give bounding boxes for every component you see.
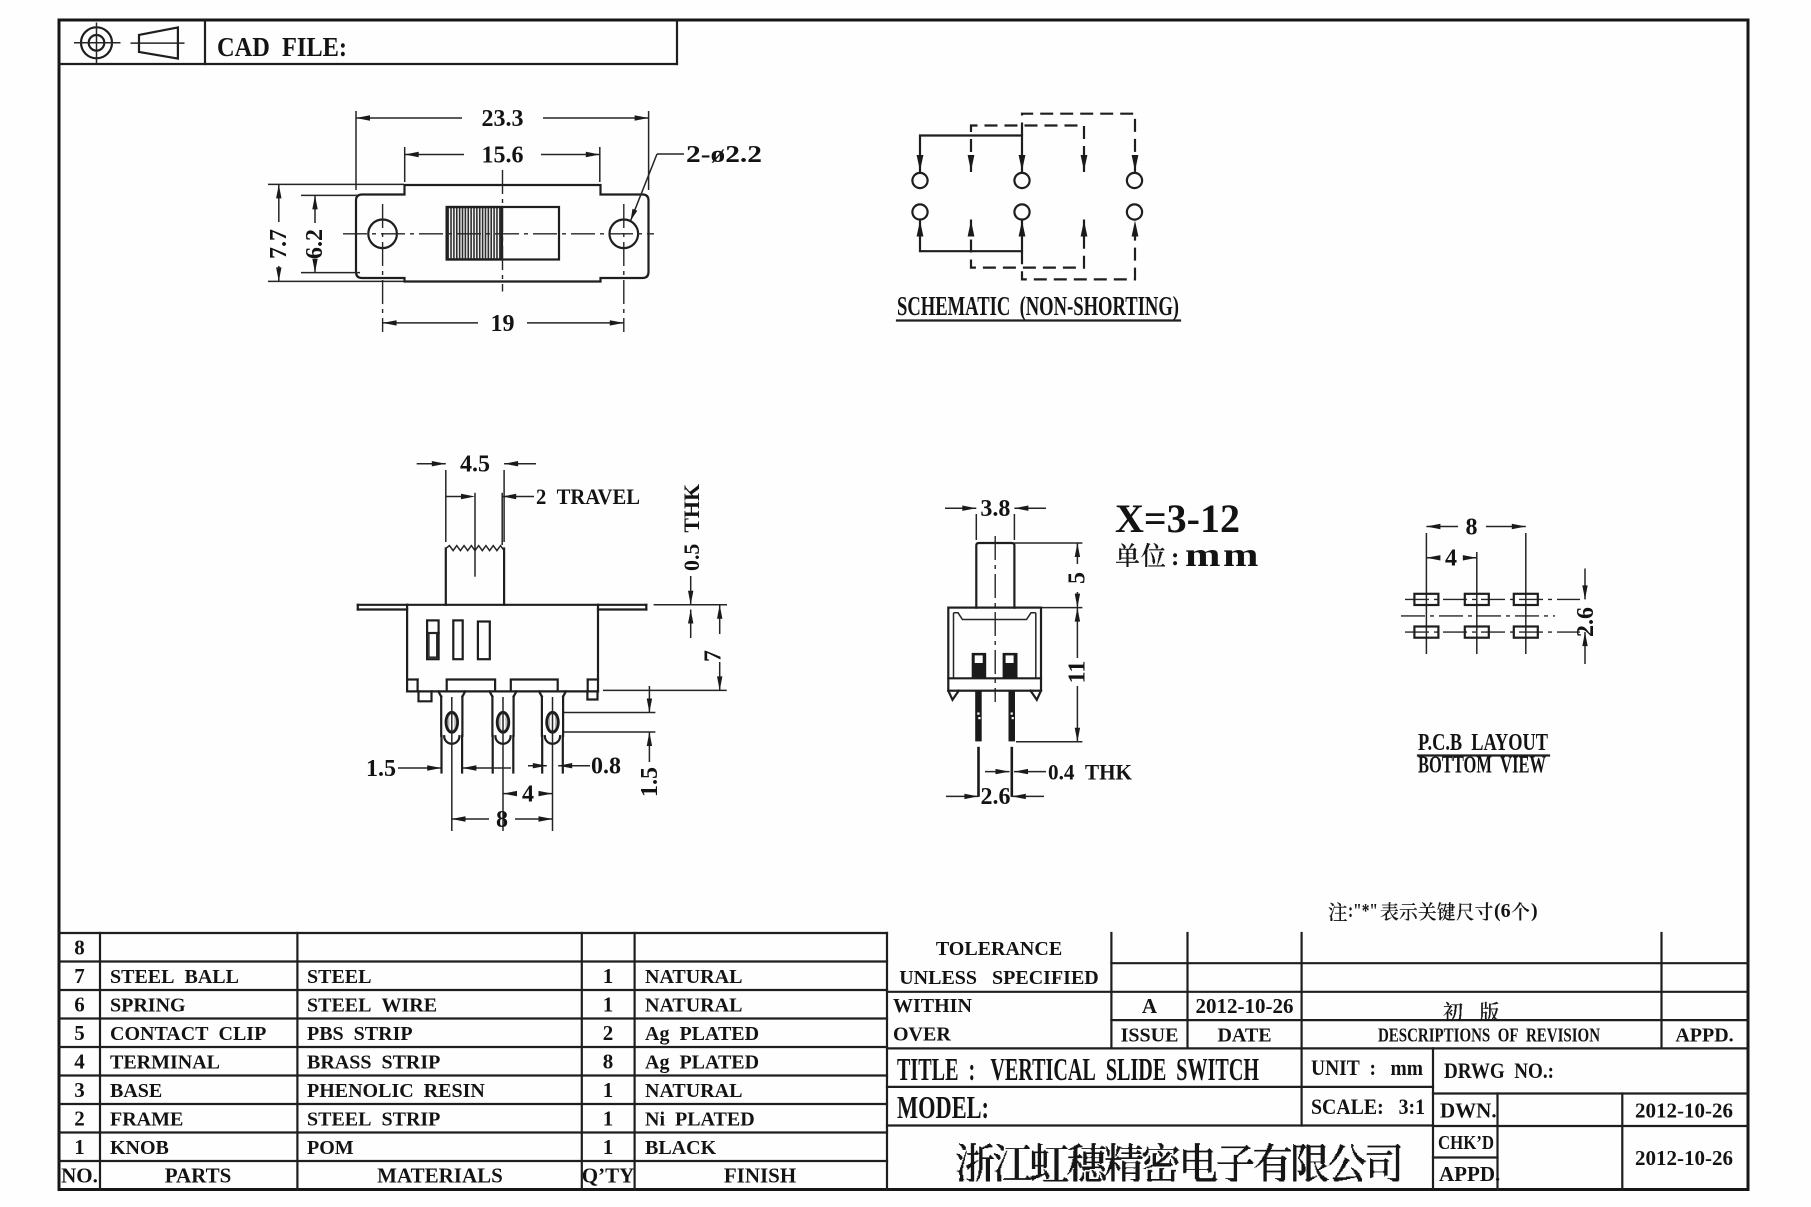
svg-text:SCALE: 3:1: SCALE: 3:1 — [1311, 1094, 1425, 1119]
revision header row — [1121, 1025, 1734, 1047]
schematic: moving contact dashed frame outer position — [1022, 114, 1138, 280]
front view: window 2 — [453, 620, 462, 659]
svg-text:OVER: OVER — [893, 1024, 951, 1046]
dimension 0.8 pin tip width — [528, 754, 621, 780]
svg-text:2: 2 — [74, 1107, 85, 1131]
dimension 0.5 THK flange thickness — [654, 484, 727, 638]
svg-text:PARTS: PARTS — [165, 1164, 232, 1188]
top view: slider recess opening — [447, 207, 559, 260]
svg-text:(6: (6 — [1494, 900, 1511, 922]
svg-text:2 TRAVEL: 2 TRAVEL — [536, 484, 640, 509]
top view: vertical centerline — [502, 170, 504, 292]
svg-text:3: 3 — [74, 1078, 85, 1102]
pcb layout: solder pad 6 — [1514, 627, 1538, 638]
svg-text:CAD FILE:: CAD FILE: — [217, 32, 347, 62]
side view: knob stem — [976, 543, 1014, 608]
revision row: A 2012-10-26 first issue — [1142, 994, 1499, 1021]
svg-text:STEEL BALL: STEEL BALL — [110, 966, 239, 988]
svg-text:PBS STRIP: PBS STRIP — [307, 1023, 413, 1045]
svg-text:BRASS STRIP: BRASS STRIP — [307, 1052, 440, 1074]
svg-text:11: 11 — [1065, 661, 1091, 684]
parts table row 2 — [74, 1107, 754, 1131]
first-angle projection symbol: truncated cone (frustum) — [131, 27, 185, 58]
svg-text:DRWG NO.:: DRWG NO.: — [1444, 1058, 1554, 1083]
dimension 23.3 overall width — [356, 106, 649, 190]
dimension 7.7 frame height — [266, 184, 404, 281]
svg-text:0.4 THK: 0.4 THK — [1048, 760, 1132, 785]
svg-text:1: 1 — [603, 1078, 614, 1102]
svg-text:1: 1 — [603, 1107, 614, 1131]
svg-text:2.6: 2.6 — [1573, 607, 1599, 637]
svg-text:8: 8 — [74, 936, 85, 960]
svg-text:8: 8 — [1466, 515, 1478, 541]
svg-text::"*": :"*" — [1348, 900, 1378, 922]
schematic: terminal contact circle 1 — [912, 173, 927, 188]
svg-text:TITLE : VERTICAL SLIDE SW: TITLE : VERTICAL SLIDE SWITCH — [897, 1051, 1259, 1087]
parts table row 1 — [74, 1135, 716, 1159]
front view: window 3 — [478, 622, 490, 660]
front view: switch body outline — [407, 605, 598, 692]
svg-text:POM: POM — [307, 1137, 354, 1159]
dimension 2 TRAVEL — [446, 484, 640, 545]
pcb layout: pad column line 2 — [1476, 552, 1478, 654]
schematic title: SCHEMATIC (NON-SHORTING) — [897, 291, 1180, 321]
parts table row 3 — [74, 1078, 742, 1102]
pcb layout: pad column line 3 — [1525, 533, 1527, 654]
front view: metal frame flange left — [358, 605, 407, 610]
dimension 2.6 pcb row spacing — [1573, 569, 1599, 665]
svg-text:A: A — [1142, 994, 1158, 1018]
svg-text:0.8: 0.8 — [591, 754, 621, 780]
pcb layout: row centerline lower — [1405, 631, 1580, 633]
svg-text:STEEL WIRE: STEEL WIRE — [307, 995, 437, 1017]
svg-text:BASE: BASE — [110, 1080, 162, 1102]
svg-text:5: 5 — [74, 1021, 85, 1045]
dimension 1.5 pin width left — [366, 756, 511, 782]
schematic: moving contact dashed frame middle position — [968, 126, 1088, 268]
side view: left foot — [948, 691, 959, 700]
dimension 8 pcb outer pitch — [1426, 515, 1525, 541]
parts table row 8 — [74, 936, 85, 960]
svg-text:X=3-12: X=3-12 — [1115, 496, 1240, 541]
dimension 4 pin pitch — [503, 782, 553, 808]
svg-text:UNLESS SPECIFIED: UNLESS SPECIFIED — [899, 967, 1099, 989]
dimension 7 body height — [603, 605, 727, 691]
svg-text:7: 7 — [74, 964, 85, 988]
top view: right mounting hole — [610, 220, 639, 249]
svg-text:FRAME: FRAME — [110, 1109, 183, 1131]
front view: terminal pin 3 — [539, 691, 566, 831]
side view: terminal pin right (black) — [1009, 691, 1016, 797]
model row — [897, 1089, 989, 1125]
dimension 19 hole spacing — [383, 311, 624, 337]
svg-text:6.2: 6.2 — [302, 229, 328, 259]
svg-text:1: 1 — [603, 1135, 614, 1159]
pcb layout: middle centerline — [1401, 615, 1555, 617]
svg-text:4: 4 — [522, 782, 534, 808]
title block grid — [887, 933, 1748, 1190]
svg-text:DWN.: DWN. — [1440, 1099, 1497, 1123]
checked row — [1438, 1132, 1733, 1170]
front view: terminal pin 2 — [490, 691, 517, 831]
svg-text:NATURAL: NATURAL — [645, 995, 742, 1017]
svg-text:2.6: 2.6 — [981, 784, 1011, 810]
svg-text:8: 8 — [496, 807, 508, 833]
title bar: CAD FILE header box — [59, 20, 677, 64]
pcb layout: row centerline upper — [1405, 598, 1580, 600]
svg-text:Ni PLATED: Ni PLATED — [645, 1109, 755, 1131]
dimension 1.5 pin slot right side — [564, 686, 664, 797]
svg-text:DESCRIPTIONS OF REVISION: DESCRIPTIONS OF REVISION — [1378, 1025, 1600, 1047]
front view: base bottom corner notch left — [407, 680, 418, 692]
svg-text:23.3: 23.3 — [482, 106, 524, 132]
parts table row 5 — [74, 1021, 759, 1045]
title row: VERTICAL SLIDE SWITCH — [897, 1051, 1259, 1087]
svg-text:1.5: 1.5 — [366, 756, 396, 782]
label: CAD FILE: — [217, 32, 347, 62]
svg-text:STEEL STRIP: STEEL STRIP — [307, 1109, 440, 1131]
dimension 5 knob height — [1014, 543, 1090, 608]
side view: contact clip left (black) — [972, 653, 987, 678]
schematic: pole 1 common frame (solid position) — [917, 136, 1026, 252]
front view: window 1 with contact detail — [427, 620, 439, 659]
svg-text:): ) — [1531, 900, 1538, 922]
svg-text:0.5 THK: 0.5 THK — [679, 484, 704, 571]
front view: metal frame flange right — [598, 605, 646, 610]
svg-text:8: 8 — [603, 1050, 614, 1074]
top view: horizontal centerline — [343, 233, 654, 235]
svg-text:NATURAL: NATURAL — [645, 1080, 742, 1102]
svg-text:7: 7 — [701, 650, 727, 662]
svg-text:TERMINAL: TERMINAL — [110, 1052, 220, 1074]
svg-text:19: 19 — [491, 311, 515, 337]
svg-text:BLACK: BLACK — [645, 1137, 717, 1159]
svg-text:Ag PLATED: Ag PLATED — [645, 1052, 759, 1074]
dimension 4 pcb pitch — [1426, 546, 1476, 572]
pcb layout: solder pad 1 — [1414, 594, 1438, 605]
svg-text:4.5: 4.5 — [460, 452, 490, 478]
svg-text:SCHEMATIC (NON-SHORTING): SCHEMATIC (NON-SHORTING) — [897, 291, 1179, 321]
pcb layout: solder pad 4 — [1414, 627, 1438, 638]
svg-text:CHK’D: CHK’D — [1438, 1132, 1494, 1154]
svg-text:1: 1 — [603, 993, 614, 1017]
svg-text:2012-10-26: 2012-10-26 — [1196, 994, 1294, 1018]
side view: terminal pin left (black) — [975, 691, 982, 797]
pcb layout: pad column line 1 — [1425, 533, 1427, 654]
svg-text:mm: mm — [1185, 537, 1261, 574]
svg-text:NATURAL: NATURAL — [645, 966, 742, 988]
unit cell — [1311, 1055, 1423, 1080]
side view: centerline — [994, 536, 996, 702]
svg-text:1.5: 1.5 — [637, 767, 663, 797]
svg-text:BOTTOM VIEW: BOTTOM VIEW — [1418, 753, 1546, 779]
parts table grid — [59, 933, 887, 1190]
svg-text:KNOB: KNOB — [110, 1137, 169, 1159]
tolerance block text — [893, 938, 1099, 1046]
side view: contact clip right (black) — [1003, 653, 1018, 678]
svg-text:STEEL: STEEL — [307, 966, 371, 988]
approved row — [1439, 1162, 1500, 1186]
svg-text:APPD.: APPD. — [1439, 1162, 1500, 1186]
svg-text:7.7: 7.7 — [266, 229, 292, 259]
front view: base boss between pins 2-3 — [511, 680, 558, 692]
pcb layout: solder pad 3 — [1514, 594, 1538, 605]
pcb layout: solder pad 2 — [1465, 594, 1489, 605]
front view: base bottom tab left — [419, 691, 432, 701]
note X=3-12 — [1115, 496, 1240, 541]
svg-text:APPD.: APPD. — [1675, 1025, 1733, 1047]
svg-text:1: 1 — [603, 964, 614, 988]
svg-text:2012-10-26: 2012-10-26 — [1635, 1099, 1733, 1123]
svg-text:WITHIN: WITHIN — [893, 995, 972, 1017]
top view: left hole centerline — [382, 204, 384, 332]
top view: right hole centerline — [623, 204, 625, 332]
schematic: terminal contact circle 5 — [1014, 204, 1029, 219]
company name (Chinese): Zhejiang Hongsui Precision Electronics Co. Ltd. — [957, 1143, 1401, 1181]
note unit mm (Chinese) — [1116, 537, 1261, 574]
svg-text:FINISH: FINISH — [724, 1164, 796, 1188]
parts table row 6 — [74, 993, 742, 1017]
dimension 6.2 end height — [301, 195, 360, 272]
drawing number cell — [1444, 1058, 1554, 1083]
svg-text:Q’TY: Q’TY — [582, 1164, 635, 1188]
svg-text:MATERIALS: MATERIALS — [377, 1164, 503, 1188]
top view: knurled knob (vertical serrations) — [447, 207, 502, 260]
front view: base bottom tab right — [587, 691, 597, 699]
pcb layout: solder pad 5 — [1465, 627, 1489, 638]
svg-text:2: 2 — [603, 1021, 614, 1045]
svg-text:4: 4 — [74, 1050, 85, 1074]
scale cell — [1311, 1094, 1425, 1119]
svg-text:2012-10-26: 2012-10-26 — [1635, 1146, 1733, 1170]
dimension 8 outer pin pitch — [452, 807, 553, 833]
note: asterisk indicates critical dimensions (Chinese) — [1329, 900, 1538, 922]
dimension 11 body height — [1016, 608, 1091, 742]
front view: base bottom corner notch right — [588, 680, 598, 692]
svg-text:6: 6 — [74, 993, 85, 1017]
parts table row 4 — [74, 1050, 759, 1074]
svg-text:TOLERANCE: TOLERANCE — [936, 938, 1062, 960]
schematic: terminal contact circle 3 — [1127, 173, 1142, 188]
svg-text:2-ø2.2: 2-ø2.2 — [686, 142, 762, 168]
drawn by row — [1440, 1099, 1733, 1123]
dimension 2-dia2.2 mounting holes leader — [631, 142, 763, 221]
side view: right foot — [1031, 691, 1042, 700]
parts table row 7 — [74, 964, 742, 988]
front view: terminal pin 1 — [438, 691, 465, 831]
svg-text:1: 1 — [74, 1135, 85, 1159]
svg-text:UNIT : mm: UNIT : mm — [1311, 1055, 1423, 1080]
svg-text::: : — [1171, 544, 1179, 571]
top view: left mounting hole — [368, 220, 397, 249]
side view: body outline — [948, 608, 1041, 691]
svg-text:NO.: NO. — [61, 1164, 98, 1188]
schematic: terminal contact circle 2 — [1014, 173, 1029, 188]
svg-text:Ag PLATED: Ag PLATED — [645, 1023, 759, 1045]
dimension 4.5 knob width — [417, 452, 536, 543]
svg-text:MODEL:: MODEL: — [897, 1089, 989, 1125]
top view: switch mounting frame outline — [356, 185, 649, 282]
front view: knob centerline — [474, 493, 476, 577]
svg-text:4: 4 — [1445, 546, 1457, 572]
front view: base boss between pins 1-2 — [447, 680, 495, 692]
svg-text:15.6: 15.6 — [482, 143, 524, 169]
dimension 0.4 THK pin thickness — [985, 760, 1132, 785]
svg-text:5: 5 — [1065, 572, 1091, 584]
svg-text:CONTACT CLIP: CONTACT CLIP — [110, 1023, 266, 1045]
first-angle projection symbol: circle with crosshair — [74, 23, 121, 64]
svg-text:3.8: 3.8 — [980, 496, 1010, 522]
dimension 15.6 recess width — [405, 143, 600, 183]
svg-text:DATE: DATE — [1217, 1025, 1271, 1047]
svg-text:PHENOLIC RESIN: PHENOLIC RESIN — [307, 1080, 485, 1102]
svg-text:ISSUE: ISSUE — [1121, 1025, 1179, 1047]
dimension 3.8 knob thickness — [945, 496, 1046, 540]
schematic: terminal contact circle 4 — [912, 204, 927, 219]
schematic: terminal contact circle 6 — [1127, 204, 1142, 219]
parts table header row — [61, 1164, 796, 1188]
dimension 2.6 pin spacing — [946, 784, 1044, 810]
pcb layout title: P.C.B LAYOUT / BOTTOM VIEW — [1418, 730, 1549, 779]
front view: knob stem with knurled top — [446, 546, 504, 605]
svg-text:SPRING: SPRING — [110, 995, 186, 1017]
